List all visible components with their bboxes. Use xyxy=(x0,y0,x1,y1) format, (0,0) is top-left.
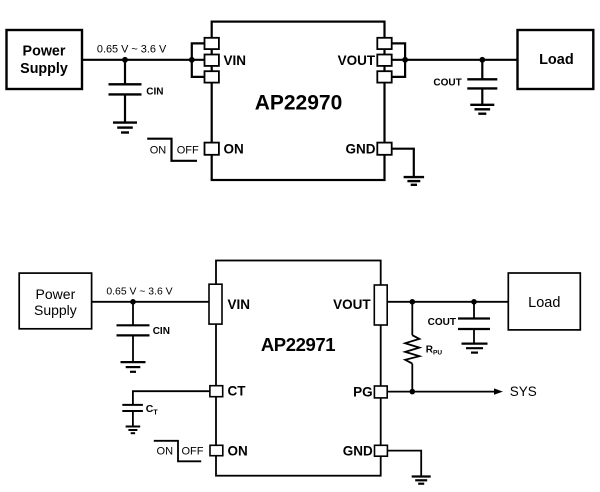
svg-text:ON: ON xyxy=(150,144,167,156)
node: VOUT bracket junction (top) xyxy=(402,57,408,63)
svg-text:VOUT: VOUT xyxy=(338,53,376,68)
load box (top) xyxy=(518,30,594,89)
node: RPU tap junction xyxy=(410,299,416,305)
CT value label xyxy=(146,403,159,416)
on/off waveform symbol (bottom) xyxy=(154,441,204,462)
svg-text:AP22970: AP22970 xyxy=(255,92,343,115)
capacitor CIN (bottom) xyxy=(117,302,150,362)
node: COUT tap junction (top) xyxy=(479,57,485,63)
svg-text:ON: ON xyxy=(224,142,244,157)
svg-text:PU: PU xyxy=(433,349,442,356)
wire: power supply to VIN rail (top) xyxy=(82,59,205,61)
svg-text:ON: ON xyxy=(228,443,248,458)
svg-text:Supply: Supply xyxy=(20,61,68,77)
power supply box (bottom) xyxy=(19,273,91,329)
capacitor COUT (top) xyxy=(467,60,497,104)
resistor RPU xyxy=(405,302,419,392)
svg-text:Load: Load xyxy=(528,295,560,311)
svg-text:Load: Load xyxy=(539,52,574,68)
ground (bottom CIN) xyxy=(121,362,146,372)
RPU value label xyxy=(426,344,443,356)
svg-text:CT: CT xyxy=(228,383,247,398)
wire: VIN pad bracket (top) xyxy=(192,43,205,77)
svg-text:GND: GND xyxy=(346,142,376,157)
wire: VOUT pad bracket (top) xyxy=(392,43,405,77)
ground (top COUT) xyxy=(470,105,494,114)
pin GND (top) xyxy=(377,143,391,155)
pin ON (top) xyxy=(205,143,219,155)
svg-text:Power: Power xyxy=(36,286,76,302)
svg-text:CIN: CIN xyxy=(153,326,170,337)
power supply box (top) xyxy=(7,30,83,89)
svg-text:CIN: CIN xyxy=(146,86,163,97)
node: COUT tap junction (bottom) xyxy=(471,299,477,305)
pin PG xyxy=(374,386,387,398)
pin VIN (bottom, tall pad) xyxy=(209,284,222,324)
svg-text:Supply: Supply xyxy=(34,302,77,318)
ground (bottom COUT) xyxy=(462,344,488,353)
svg-text:PG: PG xyxy=(353,385,373,400)
svg-text:COUT: COUT xyxy=(433,77,461,88)
wire: GND pin to ground (top) xyxy=(392,149,414,177)
wire: power supply to VIN rail (bottom) xyxy=(92,301,209,303)
wire: CT pin to CT capacitor xyxy=(133,391,210,405)
node: VIN bracket junction (top) xyxy=(189,57,195,63)
on/off waveform symbol (top) xyxy=(147,139,199,161)
svg-text:OFF: OFF xyxy=(177,144,199,156)
op IC U1 AP22970 box xyxy=(212,22,385,180)
pin CT (bottom) xyxy=(210,386,223,397)
wire: GND pin to ground (bottom) xyxy=(387,451,421,476)
svg-text:OFF: OFF xyxy=(182,446,204,458)
capacitor COUT (bottom) xyxy=(458,302,490,343)
pin VOUT (bottom, tall pad) xyxy=(374,285,387,325)
pin VOUT (top, triple pads) xyxy=(377,38,391,83)
pin ON (bottom) xyxy=(210,445,223,455)
ground (top CIN) xyxy=(113,123,137,133)
node: CIN tap junction (top) xyxy=(122,57,128,63)
svg-text:VIN: VIN xyxy=(228,297,251,312)
svg-text:Power: Power xyxy=(23,44,66,60)
svg-text:AP22971: AP22971 xyxy=(261,334,335,355)
svg-text:ON: ON xyxy=(157,446,174,458)
svg-text:VOUT: VOUT xyxy=(333,297,371,312)
svg-text:0.65 V ~ 3.6 V: 0.65 V ~ 3.6 V xyxy=(106,287,172,298)
svg-text:VIN: VIN xyxy=(224,53,247,68)
svg-text:SYS: SYS xyxy=(510,384,537,399)
ground (bottom GND) xyxy=(412,477,431,484)
node: PG / RPU junction xyxy=(410,389,416,395)
svg-text:0.65 V ~ 3.6 V: 0.65 V ~ 3.6 V xyxy=(97,44,167,56)
capacitor CT xyxy=(122,405,143,426)
wire: VOUT rail to load (top) xyxy=(392,59,518,61)
wire: VOUT rail to load (bottom) xyxy=(387,301,508,303)
IC U2 AP22971 box xyxy=(216,261,381,476)
svg-text:GND: GND xyxy=(343,443,373,458)
svg-text:T: T xyxy=(153,409,158,416)
pin GND (bottom) xyxy=(375,445,388,456)
ground (CT) xyxy=(126,427,141,434)
wire: PG to SYS arrow xyxy=(387,391,494,393)
node: CIN tap junction (bottom) xyxy=(130,299,136,305)
ground (top GND) xyxy=(404,177,425,185)
capacitor CIN (top) xyxy=(109,60,142,123)
svg-text:COUT: COUT xyxy=(428,317,456,328)
load box (bottom) xyxy=(508,273,580,330)
pin VIN (top, triple pads) xyxy=(205,38,219,83)
arrowhead SYS xyxy=(494,388,503,394)
